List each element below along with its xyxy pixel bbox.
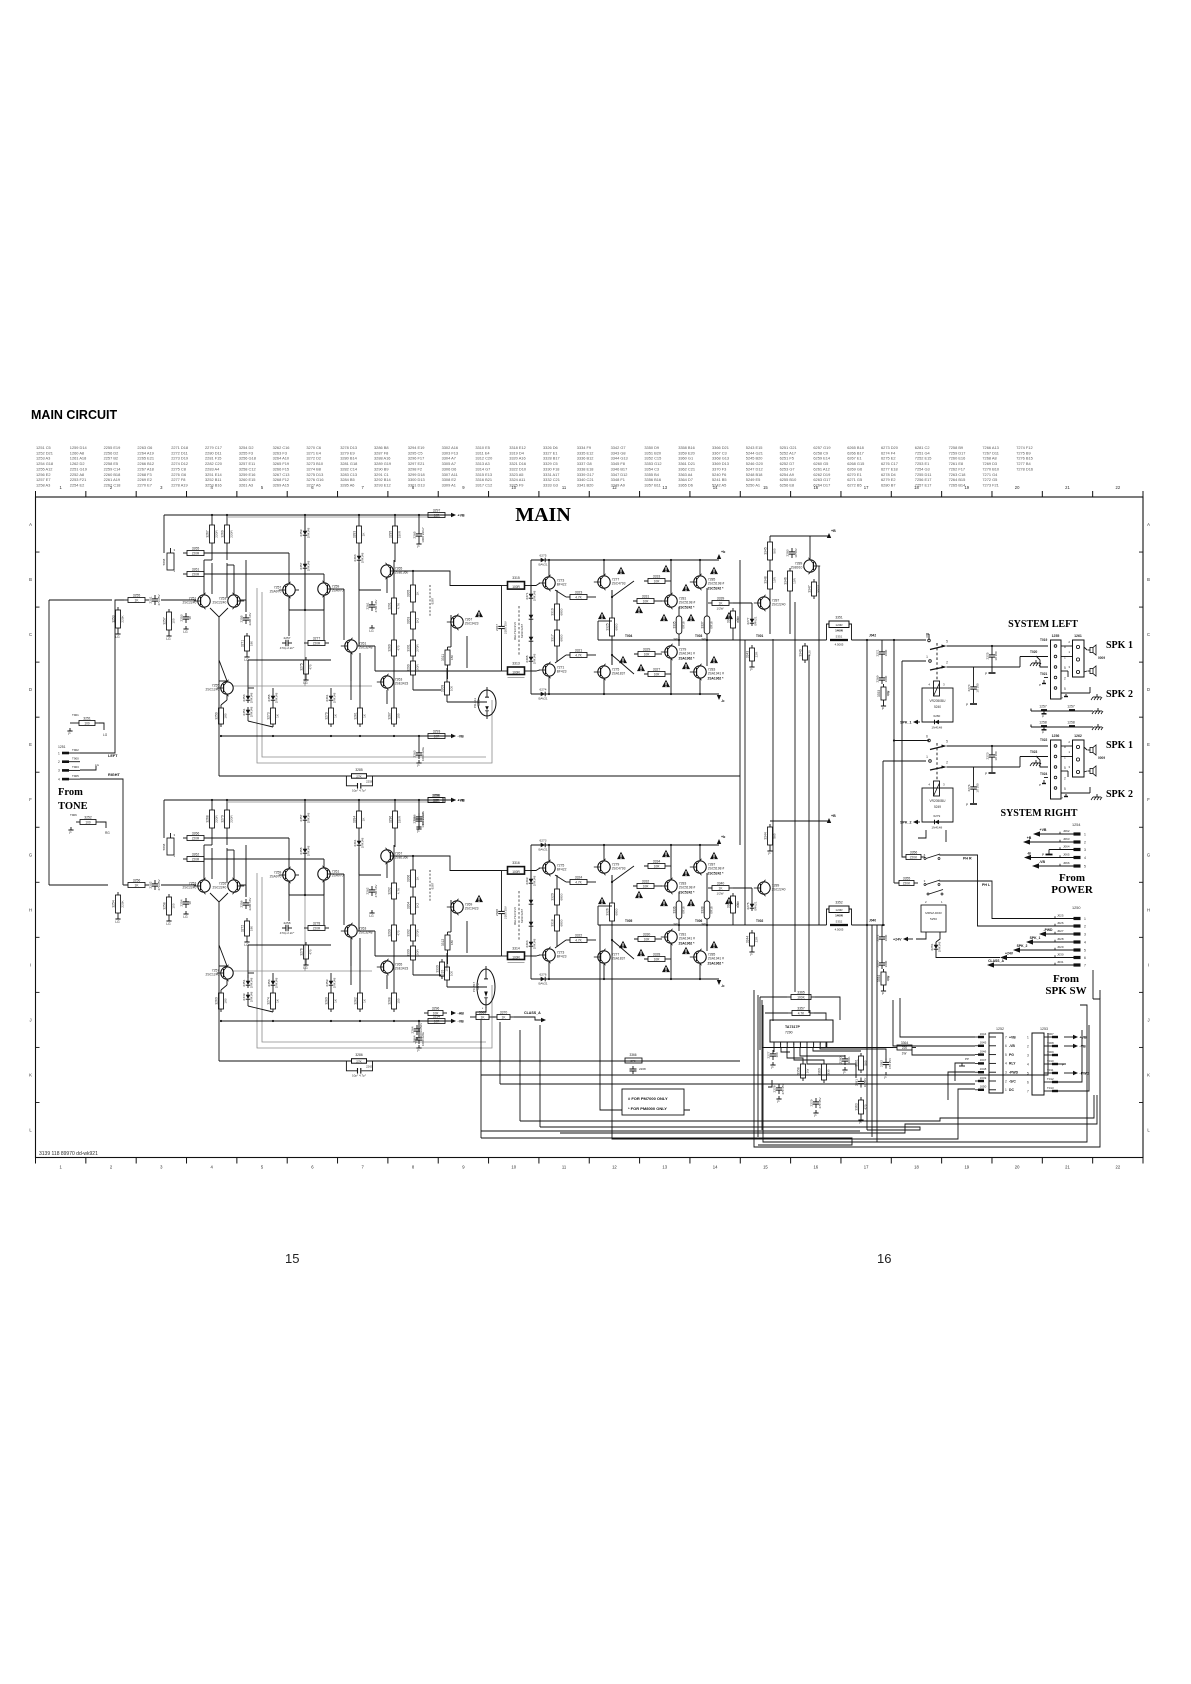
svg-text:2260: 2260 [366, 1065, 373, 1069]
svg-text:J044: J044 [980, 1032, 987, 1036]
svg-text:3280: 3280 [325, 997, 329, 1005]
resistor 3267 [206, 522, 219, 546]
svg-text:6273 D20: 6273 D20 [881, 445, 899, 450]
relay contact 3-4 [924, 879, 941, 886]
capacitor 2258 [346, 776, 357, 786]
junction [548, 978, 550, 980]
wire [240, 884, 246, 886]
svg-text:2278 A19: 2278 A19 [171, 482, 187, 487]
transistor 7265 2SE3423 [377, 959, 409, 975]
wire [769, 592, 771, 634]
svg-text:# FOR PM7000 ONLY: # FOR PM7000 ONLY [628, 1096, 668, 1101]
wire [418, 1021, 420, 1034]
svg-text:3285 A6: 3285 A6 [340, 482, 354, 487]
junction on -B rail [359, 1020, 361, 1022]
svg-text:3336: 3336 [673, 906, 677, 913]
svg-text:2282: 2282 [880, 1060, 884, 1067]
relay contact 6-5 [924, 853, 941, 860]
svg-text:1258 A3: 1258 A3 [36, 482, 50, 487]
wire [883, 760, 926, 762]
ground LG [166, 918, 171, 926]
resistor 3290 [388, 922, 401, 944]
svg-text:J: J [1147, 1017, 1149, 1022]
resistor 3301 [407, 637, 420, 659]
wire relay dashed link [936, 643, 938, 681]
svg-text:3283 C13: 3283 C13 [340, 472, 357, 477]
svg-text:22: 22 [1115, 1165, 1120, 1170]
svg-text:5241 B5: 5241 B5 [712, 477, 727, 482]
wire [211, 563, 213, 594]
transistor 7281 2SA1941 # [661, 929, 695, 945]
svg-text:J028: J028 [1057, 937, 1064, 941]
svg-text:5: 5 [946, 640, 948, 644]
warning mark [682, 869, 690, 876]
svg-text:3282 C14: 3282 C14 [340, 466, 358, 471]
ground P [67, 728, 72, 736]
resistor 3353 [877, 684, 890, 703]
svg-text:2SC5242 *: 2SC5242 * [679, 891, 696, 895]
wire [991, 646, 993, 651]
svg-text:P: P [777, 1100, 779, 1104]
wire [530, 586, 532, 592]
resistor 3312 [441, 932, 454, 953]
relay contact B bank 1 [929, 660, 932, 663]
svg-text:3265: 3265 [192, 546, 200, 550]
wire +B rail left channel [164, 514, 455, 516]
wire [219, 617, 227, 681]
wire feedback run [367, 775, 741, 777]
connector 1250 pin 2 [1074, 924, 1081, 927]
svg-text:2: 2 [1064, 777, 1066, 781]
wire [350, 653, 352, 700]
junction on -B rail [418, 1020, 420, 1022]
resistor 3299 [407, 658, 420, 678]
svg-text:6800: 6800 [560, 919, 564, 926]
wire [597, 906, 599, 925]
relay contact - [927, 890, 943, 896]
resistor 3266 [183, 831, 208, 840]
wire (alt) [233, 685, 372, 687]
svg-text:3268: 3268 [206, 815, 210, 823]
svg-text:3345: 3345 [764, 547, 768, 555]
svg-text:-PWD: -PWD [1043, 928, 1053, 932]
resistor 3271 [241, 633, 254, 654]
resistor 3327 [644, 667, 669, 676]
resistor 3255 [124, 593, 149, 602]
svg-text:3292: 3292 [388, 887, 392, 895]
svg-text:180: 180 [224, 713, 228, 718]
capacitor 2269 [876, 674, 888, 684]
svg-text:TONE: TONE [58, 801, 88, 812]
junction [412, 855, 414, 857]
svg-text:1N4148: 1N4148 [533, 875, 537, 886]
svg-text:3346: 3346 [784, 577, 788, 585]
warning mark [598, 897, 606, 904]
svg-text:J065: J065 [1063, 852, 1070, 856]
wire [247, 717, 249, 721]
wire [161, 599, 190, 601]
wire [787, 1047, 803, 1061]
wire [926, 740, 929, 742]
terminal SPK_2 [900, 820, 920, 825]
svg-text:B4V21: B4V21 [754, 616, 758, 625]
resistor 3325 [606, 615, 619, 639]
resistor 3354 [877, 969, 890, 988]
svg-text:3276: 3276 [300, 948, 304, 956]
transistor 7257 2SA970 [270, 582, 296, 598]
junction on +B rail [226, 799, 228, 801]
svg-text:19: 19 [964, 1165, 969, 1170]
wire [393, 845, 395, 880]
svg-text:2SC4793: 2SC4793 [612, 582, 626, 586]
resistor 3346 [784, 568, 797, 594]
svg-text:3299: 3299 [407, 664, 411, 672]
ground P [883, 1072, 888, 1080]
wire [794, 1047, 824, 1061]
svg-text:P: P [1039, 683, 1041, 687]
resistor 3314 [508, 952, 525, 960]
svg-text:4: 4 [1084, 940, 1086, 944]
node J040 [866, 924, 868, 926]
svg-text:6: 6 [1084, 956, 1086, 960]
wire routing loop 2 [763, 1005, 1087, 1142]
svg-text:220: 220 [902, 1046, 908, 1050]
wire [304, 856, 306, 895]
svg-text:LG: LG [166, 637, 171, 641]
svg-text:6258 C9: 6258 C9 [813, 450, 828, 455]
svg-text:3290 B9: 3290 B9 [374, 466, 389, 471]
svg-text:4.7K: 4.7K [575, 939, 582, 943]
svg-text:7262 F17: 7262 F17 [949, 466, 965, 471]
svg-text:LG: LG [115, 635, 120, 639]
terminal +b [717, 835, 726, 844]
warning mark [619, 656, 627, 663]
svg-text:T012: T012 [1047, 1077, 1054, 1081]
junction on +B rail [304, 514, 306, 516]
svg-text:3323 A5: 3323 A5 [509, 472, 523, 477]
svg-text:220R: 220R [230, 815, 234, 823]
junction [670, 978, 672, 980]
capacitor 2279 [810, 1097, 822, 1108]
svg-text:7290: 7290 [785, 1031, 793, 1035]
svg-text:2SC3423: 2SC3423 [465, 622, 479, 626]
svg-text:3260 E15: 3260 E15 [239, 477, 256, 482]
svg-text:180: 180 [450, 940, 454, 945]
svg-text:3257 E11: 3257 E11 [239, 461, 255, 466]
capacitor 2276 [967, 783, 979, 793]
svg-text:LG: LG [183, 915, 188, 919]
svg-text:100: 100 [172, 903, 176, 908]
junction on -B rail [330, 1020, 332, 1022]
svg-text:P: P [69, 831, 71, 835]
resistor 3286 feedback [352, 1059, 367, 1064]
svg-text:1262: 1262 [1074, 734, 1082, 738]
wire [1084, 671, 1087, 672]
svg-text:10: 10 [188, 901, 192, 905]
speaker [1088, 766, 1097, 776]
junction on -B rail [359, 735, 361, 737]
svg-text:2282 C20: 2282 C20 [205, 461, 223, 466]
svg-text:1000: 1000 [884, 934, 888, 941]
warning mark [710, 567, 718, 574]
wire [304, 823, 306, 846]
svg-text:2: 2 [1064, 677, 1066, 681]
diode 6359 [299, 527, 311, 538]
capacitor 2277 [767, 1050, 779, 1060]
svg-text:3364: 3364 [901, 1041, 909, 1045]
wire [245, 845, 247, 897]
resistor 3358 [797, 1061, 810, 1081]
svg-text:17: 17 [864, 1165, 869, 1170]
wire [539, 1025, 541, 1127]
warning mark [710, 852, 718, 859]
terminal SPK_1 [1031, 941, 1074, 943]
svg-text:7W: 7W [887, 976, 891, 981]
wire [358, 645, 375, 647]
svg-text:1251 C5: 1251 C5 [36, 445, 51, 450]
wire [493, 1016, 495, 1018]
svg-text:6361: 6361 [325, 694, 329, 701]
svg-text:470 25V: 470 25V [888, 1058, 892, 1069]
resistor 3285 feedback [352, 774, 367, 779]
svg-text:1261: 1261 [1074, 634, 1082, 638]
wire [633, 885, 637, 887]
wire [245, 560, 247, 612]
transistor 7289 2SC2240 [754, 880, 786, 896]
svg-text:4.7K: 4.7K [575, 596, 582, 600]
terminal +VB [450, 513, 465, 518]
svg-text:3300: 3300 [407, 949, 411, 957]
svg-text:3357: 3357 [797, 1006, 805, 1010]
terminal +VB [451, 798, 465, 803]
connector 1254 pin 1 [1074, 832, 1081, 835]
svg-text:3269 A15: 3269 A15 [273, 482, 289, 487]
svg-text:4.7K: 4.7K [575, 654, 582, 658]
resistor 3310 [441, 964, 454, 983]
wire [670, 659, 672, 694]
svg-text:3256: 3256 [133, 878, 141, 882]
svg-text:2SC3423: 2SC3423 [465, 907, 479, 911]
ground LG [183, 911, 188, 919]
svg-text:3307 A11: 3307 A11 [442, 472, 458, 477]
svg-text:6261 A12: 6261 A12 [813, 466, 829, 471]
transistor 7267 2SC3423 [447, 614, 479, 630]
svg-text:10 50V: 10 50V [863, 1078, 867, 1088]
svg-text:220R: 220R [313, 927, 321, 931]
resistor 3339 [708, 596, 733, 605]
svg-text:7278 D16: 7278 D16 [1016, 466, 1033, 471]
svg-text:3334: 3334 [653, 859, 661, 863]
wire feedback run [219, 775, 352, 777]
wire [678, 637, 680, 640]
resistor 3345 [764, 539, 777, 563]
wire [501, 871, 503, 908]
transistor 7289 2SB910 [791, 558, 821, 574]
ground P [858, 1117, 863, 1125]
wire [248, 687, 254, 689]
svg-text:SPK SW: SPK SW [1045, 985, 1086, 997]
wire to 1252 pin7 [900, 998, 975, 1037]
photocoupler 7269 PD-811 [473, 687, 496, 719]
svg-text:2SA1837: 2SA1837 [612, 957, 626, 961]
svg-text:3305: 3305 [407, 590, 411, 598]
svg-text:27K: 27K [356, 775, 362, 779]
svg-text:T004: T004 [625, 634, 632, 638]
terminal -VB [450, 1019, 464, 1024]
resistor 3311 [441, 647, 454, 668]
wire +b rail output [531, 559, 719, 561]
svg-text:P: P [768, 852, 770, 856]
wire left bus drop [893, 640, 895, 883]
wire [358, 563, 360, 590]
wire [161, 884, 190, 886]
capacitor 2265 [413, 526, 425, 542]
junction [548, 844, 550, 846]
svg-text:3264 A10: 3264 A10 [273, 456, 290, 461]
svg-text:3317: 3317 [551, 634, 555, 642]
svg-text:3311 E4: 3311 E4 [475, 450, 490, 455]
svg-text:P: P [882, 992, 884, 996]
svg-text:6276 C17: 6276 C17 [881, 461, 898, 466]
svg-text:7274 F12: 7274 F12 [1016, 445, 1032, 450]
wire [350, 938, 352, 985]
svg-text:2267 A18: 2267 A18 [137, 466, 153, 471]
resistor 3259 [215, 705, 228, 727]
capacitor 2253 [180, 613, 192, 623]
svg-text:3258: 3258 [163, 902, 167, 910]
wire [603, 560, 605, 575]
svg-text:2264: 2264 [411, 1026, 415, 1033]
svg-text:7259 D17: 7259 D17 [949, 450, 966, 455]
ground P small [1043, 727, 1045, 730]
svg-text:3359 E20: 3359 E20 [678, 450, 695, 455]
svg-text:LG: LG [103, 733, 108, 737]
junction on -B rail [272, 735, 274, 737]
svg-text:BF422: BF422 [557, 583, 567, 587]
wire [211, 848, 213, 879]
svg-text:I: I [30, 962, 31, 967]
terminal SPK_1 [900, 720, 920, 725]
diode 6359 [325, 977, 337, 988]
wire [226, 980, 228, 985]
ground P small [1043, 680, 1045, 683]
svg-text:3296 F17: 3296 F17 [408, 456, 424, 461]
resistor 3331 [633, 594, 658, 603]
resistor 3279 [325, 705, 338, 727]
wire [49, 599, 112, 601]
svg-text:1256 E2: 1256 E2 [36, 472, 51, 477]
diode 6351 [242, 706, 254, 717]
svg-text:3303: 3303 [407, 617, 411, 625]
wire [412, 605, 414, 609]
svg-text:6353: 6353 [242, 694, 246, 701]
svg-text:3281 G18: 3281 G18 [340, 461, 357, 466]
svg-text:3287: 3287 [388, 712, 392, 720]
resistor 3355 [895, 876, 918, 885]
svg-text:6251 F5: 6251 F5 [780, 456, 794, 461]
wire [393, 659, 395, 705]
svg-text:SPK 2: SPK 2 [1106, 689, 1133, 700]
svg-text:PH R: PH R [963, 857, 972, 861]
svg-text:6280: 6280 [933, 714, 940, 718]
diode 6369 [529, 612, 534, 622]
wire [814, 1013, 826, 1020]
resistor 3265 [183, 546, 208, 555]
wire [386, 578, 388, 593]
wire [773, 1047, 775, 1052]
wire output interconnect [744, 640, 746, 925]
connector 1250 pin 6 [1074, 956, 1081, 959]
svg-text:J062: J062 [1063, 829, 1070, 833]
svg-text:3343 G8: 3343 G8 [611, 450, 626, 455]
wire [591, 881, 596, 883]
diode 6355 [299, 845, 311, 856]
svg-text:560: 560 [773, 548, 777, 553]
svg-text:2264 A19: 2264 A19 [137, 450, 153, 455]
wire [412, 890, 414, 894]
svg-text:7256 E17: 7256 E17 [915, 477, 932, 482]
svg-text:3260: 3260 [215, 997, 219, 1005]
terminal -PWD [1044, 933, 1074, 935]
svg-text:J047: J047 [980, 1058, 987, 1062]
warning mark [662, 965, 670, 972]
ground LG [166, 633, 171, 641]
wire [219, 680, 227, 682]
wire [418, 540, 420, 541]
svg-text:-VB: -VB [1009, 1044, 1015, 1048]
svg-text:P: P [859, 1121, 861, 1125]
svg-text:100: 100 [775, 1052, 779, 1057]
svg-text:470: 470 [397, 645, 401, 650]
svg-text:3352 C15: 3352 C15 [644, 456, 661, 461]
svg-text:5252 A17: 5252 A17 [780, 450, 796, 455]
diode 6357 [299, 812, 311, 823]
warning mark [687, 614, 695, 621]
wire [768, 1080, 772, 1087]
svg-text:3340 C21: 3340 C21 [577, 477, 594, 482]
connector 1254 pin 3 [1074, 848, 1081, 851]
wire [611, 590, 613, 597]
svg-text:3274: 3274 [267, 997, 271, 1005]
svg-text:3368 G13: 3368 G13 [712, 456, 729, 461]
svg-text:2SA970: 2SA970 [270, 875, 282, 879]
svg-text:10R: 10R [773, 576, 777, 582]
transistor 7275 BF422 [539, 860, 567, 876]
capacitor 2283 [786, 548, 798, 558]
wire [644, 673, 648, 675]
svg-text:P: P [882, 707, 884, 711]
wire +b interconnect [739, 560, 741, 845]
svg-text:6357: 6357 [299, 562, 303, 569]
svg-text:3327: 3327 [653, 667, 661, 671]
diode 6357 [299, 560, 311, 571]
svg-text:5868: 5868 [162, 558, 166, 565]
svg-text:470 35V: 470 35V [818, 1097, 822, 1108]
svg-text:2256 D2: 2256 D2 [104, 450, 119, 455]
wire [358, 831, 360, 838]
connector 1256 [1051, 740, 1062, 799]
wire [670, 944, 672, 979]
svg-text:D: D [29, 687, 32, 692]
wire [1058, 1025, 1089, 1091]
wire +B rail right channel [164, 799, 455, 801]
svg-text:7W: 7W [887, 691, 891, 696]
junction on left output bus [893, 639, 895, 641]
designator cross-reference table [36, 445, 1033, 487]
svg-text:4700 16V: 4700 16V [374, 600, 378, 613]
svg-text:100: 100 [172, 618, 176, 623]
svg-text:6269 6267: 6269 6267 [520, 624, 524, 639]
